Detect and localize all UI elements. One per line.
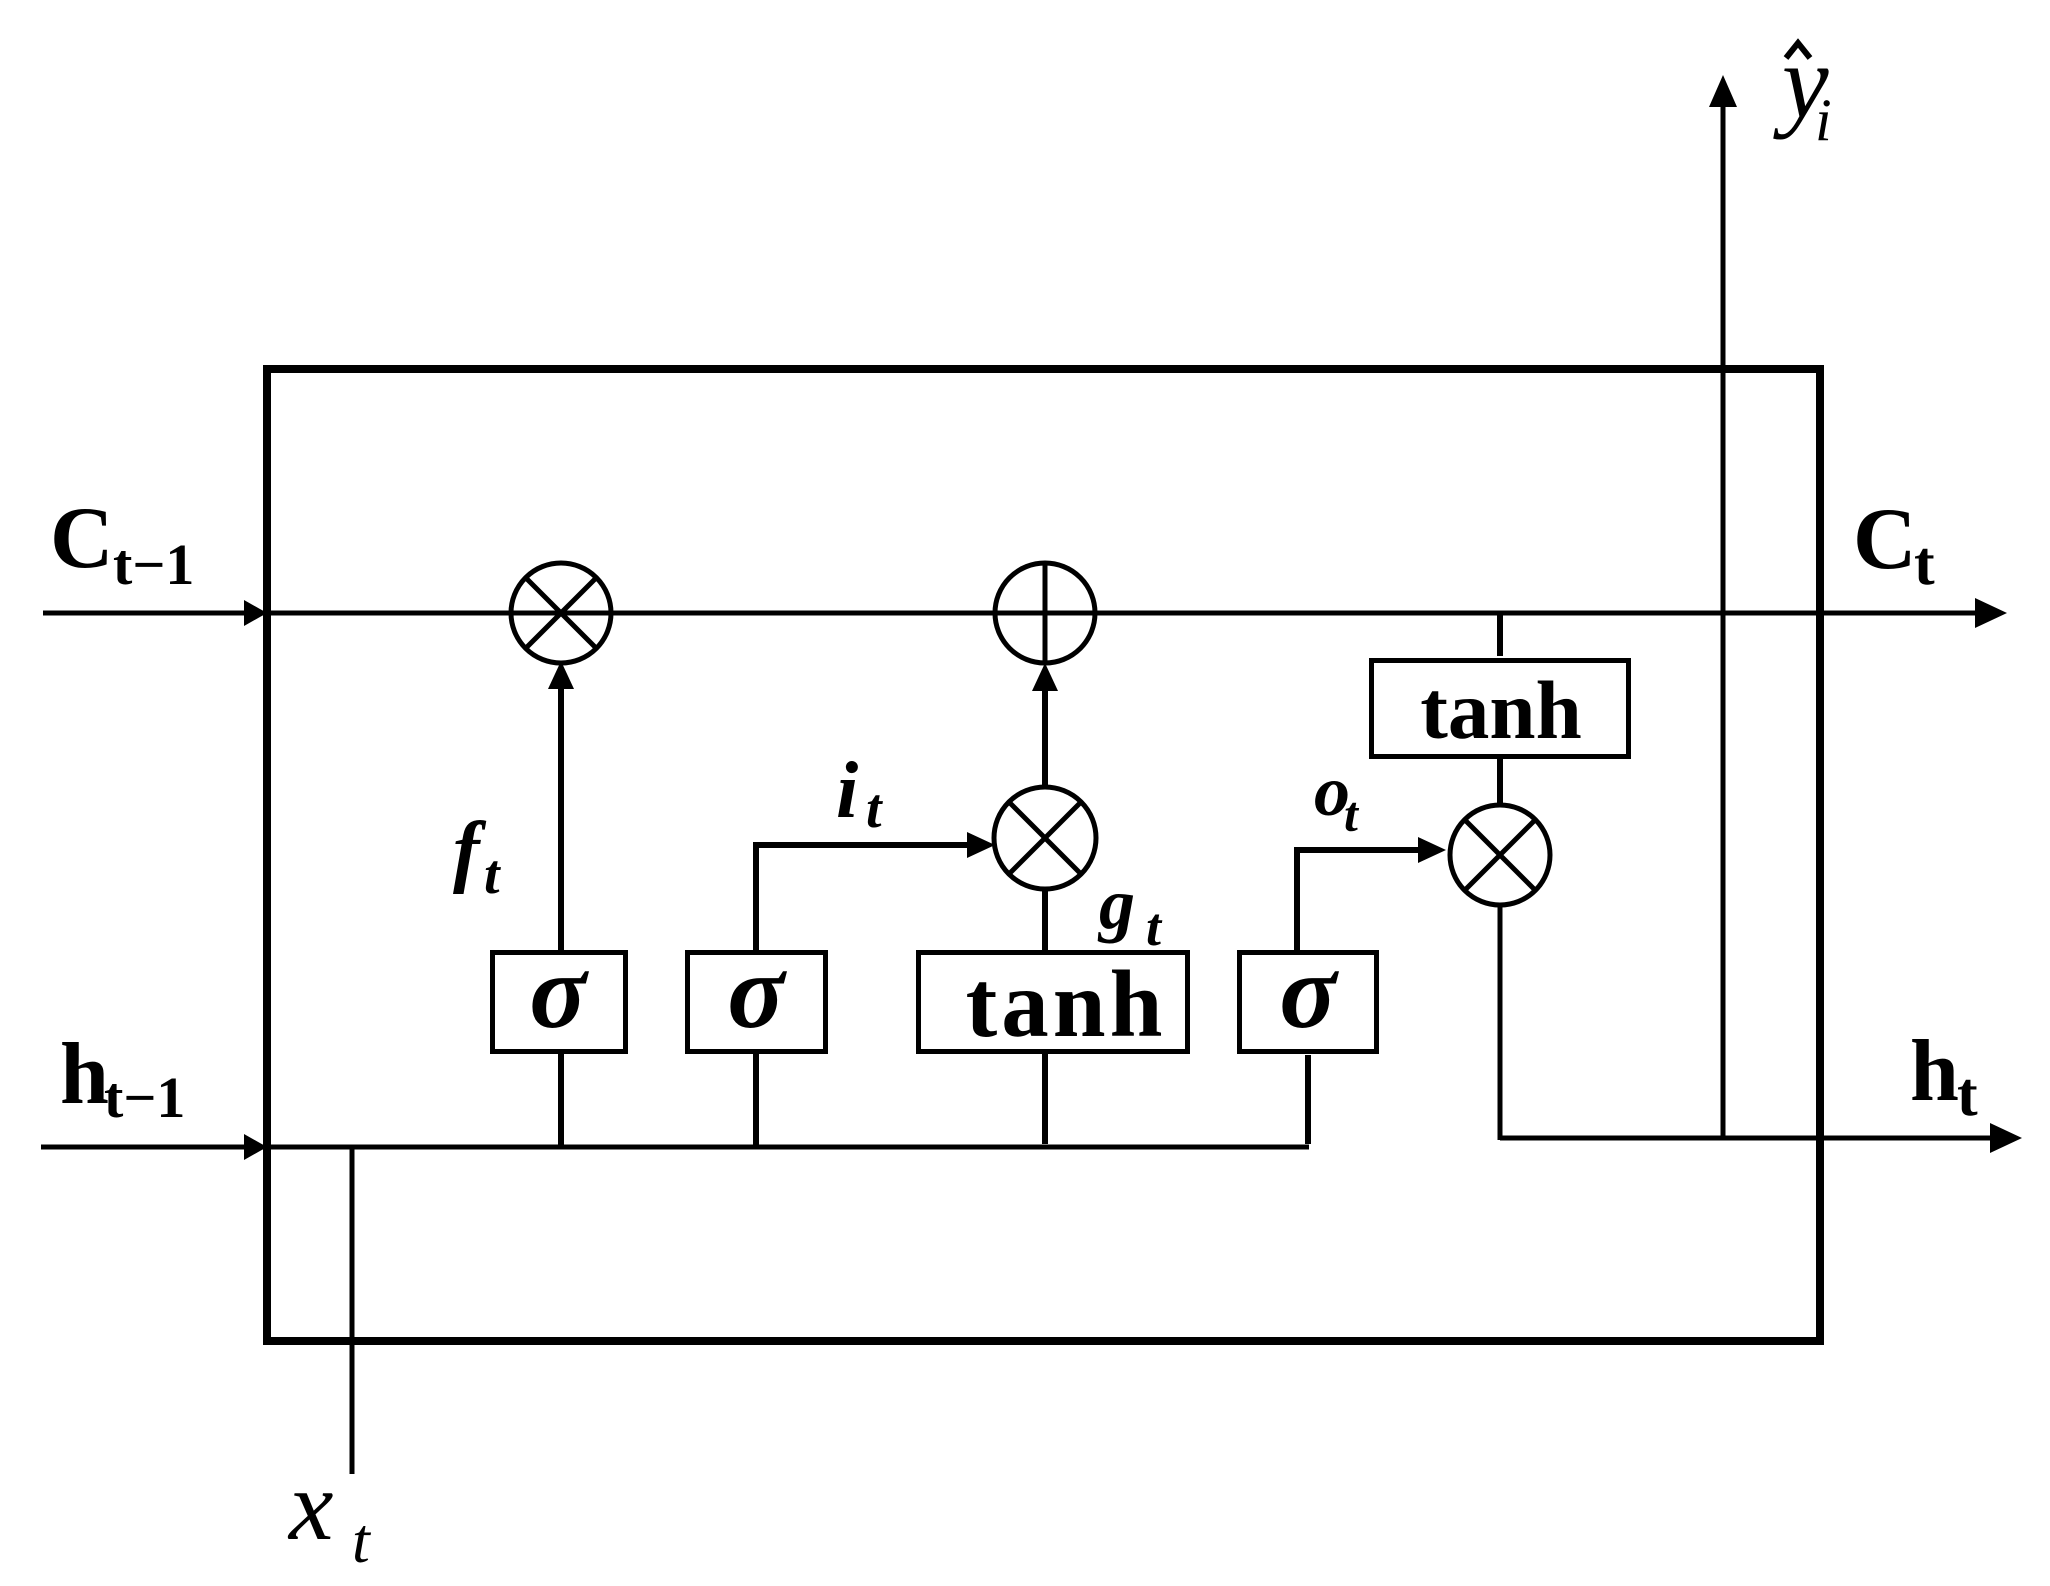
svg-text:t−1: t−1 [104, 1065, 185, 1130]
svg-text:t: t [1344, 786, 1360, 842]
svg-text:C: C [1853, 491, 1917, 588]
svg-text:g: g [1097, 864, 1135, 944]
svg-text:t: t [866, 778, 883, 840]
svg-text:σ: σ [1279, 933, 1339, 1050]
svg-text:t: t [1957, 1061, 1978, 1129]
svg-text:tanh: tanh [1420, 664, 1581, 756]
svg-text:σ: σ [727, 933, 787, 1050]
svg-text:h: h [60, 1026, 109, 1123]
svg-text:h: h [1910, 1023, 1959, 1120]
svg-text:t: t [352, 1505, 372, 1576]
svg-text:t−1: t−1 [113, 532, 194, 597]
svg-text:i: i [1815, 87, 1832, 153]
svg-text:t: t [484, 844, 501, 906]
svg-text:x: x [287, 1450, 333, 1561]
svg-text:t: t [1914, 530, 1935, 598]
svg-text:σ: σ [529, 933, 589, 1050]
svg-text:i: i [836, 747, 858, 835]
svg-text:t: t [1146, 897, 1163, 957]
svg-text:C: C [50, 490, 114, 587]
svg-text:tanh: tanh [966, 951, 1167, 1057]
